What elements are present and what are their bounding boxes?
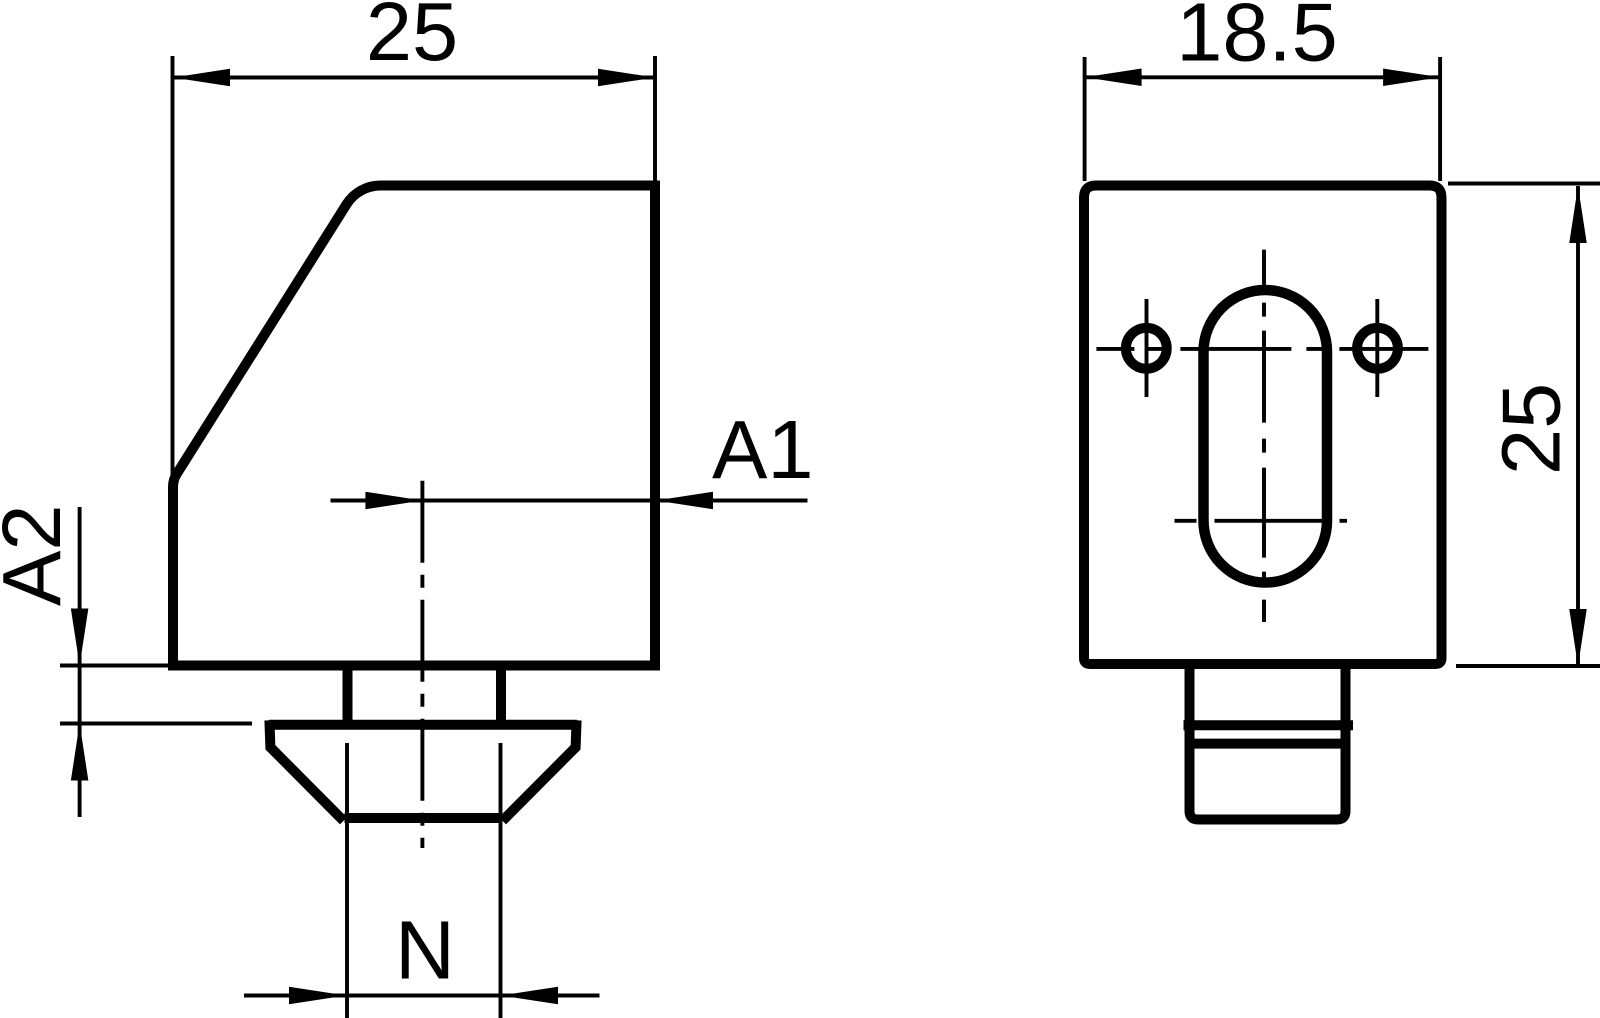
svg-text:A1: A1	[712, 403, 814, 496]
svg-text:A2: A2	[0, 504, 78, 606]
svg-text:25: 25	[1485, 383, 1578, 475]
svg-text:N: N	[395, 904, 455, 997]
svg-text:18.5: 18.5	[1176, 0, 1338, 79]
svg-text:25: 25	[366, 0, 458, 78]
